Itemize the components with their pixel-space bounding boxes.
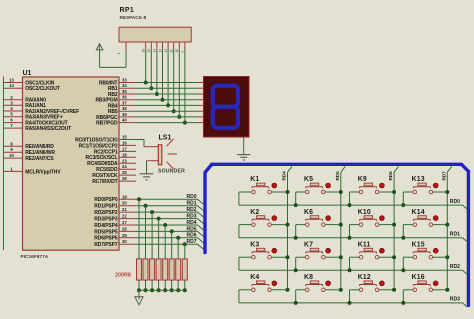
RP1 pin 2 (145, 42, 147, 49)
resistor common rail (139, 289, 185, 291)
U1 right pin 17 RC2/CCP1 (119, 150, 136, 152)
wire K3 left to row (239, 256, 252, 258)
keypad row wire RD2 (239, 269, 463, 271)
wire RP1 pin3 to RB1 (150, 49, 152, 88)
svg-text:21: 21 (122, 207, 127, 212)
junction RD1 (144, 204, 148, 208)
wire K12 left to row (350, 289, 360, 291)
svg-text:K1: K1 (250, 176, 259, 183)
wire K11 right to column (379, 256, 394, 258)
wire RD2 to resistor (151, 212, 153, 259)
bus wire (blue) right vertical (467, 171, 470, 305)
svg-text:RD5/PSP5: RD5/PSP5 (94, 229, 118, 235)
resistor R3 (200R) (150, 259, 155, 280)
U1 right pin 22 RD3/PSP3 (119, 218, 136, 220)
U1 left pin 7 RA5/AN4/SS/C2OUT (4, 127, 23, 129)
wire K1 right to column (271, 191, 287, 193)
resistor R5 (200R) (163, 259, 168, 280)
svg-text:RESPACK-8: RESPACK-8 (120, 15, 147, 20)
wire K6 right to column (325, 224, 341, 226)
resistor R1 (200R) (137, 259, 142, 280)
U1 right pin 26 RC7/RX/DT (119, 180, 136, 182)
wire RD2 to bus (136, 211, 198, 213)
wire K7 left to row (296, 256, 306, 258)
svg-text:K2: K2 (250, 209, 259, 216)
wire K6 left to row (296, 224, 306, 226)
wire K16 right to column (433, 289, 448, 291)
U1 right pin 21 RD2/PSP2 (119, 211, 136, 213)
wire RD1 to bus (136, 205, 198, 207)
junction RD0 (137, 197, 141, 201)
wire RD3 to bus (136, 218, 198, 220)
wire RD7 to resistor (184, 244, 186, 259)
resistor R8 lead (184, 280, 186, 290)
wire RB3 to display (136, 99, 198, 101)
svg-text:28: 28 (122, 226, 127, 231)
wire K4 left to row (239, 289, 252, 291)
svg-text:39: 39 (122, 112, 127, 117)
svg-text:RD0/PSP0: RD0/PSP0 (94, 197, 118, 203)
U1 right pin 15 RC0/T1OSO/T1CKI (119, 139, 136, 141)
resistor R2 (200R) (143, 259, 148, 280)
junction RD4 (163, 223, 167, 227)
U1 right pin 20 RD1/PSP1 (119, 205, 136, 207)
wire K1 left to row (239, 191, 252, 193)
svg-text:MCLR/Vpp/THV: MCLR/Vpp/THV (25, 169, 61, 175)
wire K9 right to column (379, 191, 394, 193)
junction RD3 (157, 217, 161, 221)
svg-text:RC7/RX/DT: RC7/RX/DT (92, 179, 117, 185)
U1 right pin 36 RB3/PGM (119, 99, 136, 101)
svg-text:RD7: RD7 (441, 171, 446, 181)
svg-text:27: 27 (122, 220, 127, 225)
display ground wire (243, 137, 245, 154)
wire RP1 pin6 to RB4 (167, 49, 169, 105)
svg-text:25: 25 (122, 170, 127, 175)
U1 left pin 6 RA4/T0CKI/C1OUT (4, 122, 23, 124)
wire K5 left to row (296, 191, 306, 193)
svg-text:RD3: RD3 (450, 297, 460, 303)
svg-text:34: 34 (122, 83, 127, 88)
wire RB4 to display (136, 104, 198, 106)
U1 left pin 8 RE0/AN5/RD (4, 145, 23, 147)
U1 left pin 5 RA3/AN3/VREF+ (4, 116, 23, 118)
svg-text:24: 24 (122, 164, 127, 169)
wire RD1 to resistor (145, 206, 147, 259)
ground symbol (sounder) (140, 173, 154, 175)
svg-text:RD1: RD1 (187, 201, 197, 207)
keypad row wire RD3 (239, 302, 463, 304)
U1 right pin 28 RD5/PSP5 (119, 230, 136, 232)
svg-text:RD0: RD0 (450, 199, 460, 205)
svg-text:K8: K8 (304, 274, 313, 281)
svg-text:RD1/PSP1: RD1/PSP1 (94, 204, 118, 210)
svg-text:38: 38 (122, 106, 127, 111)
ground symbol (display) (237, 154, 250, 156)
svg-text:14: 14 (9, 83, 14, 88)
wire RC0 to sounder (136, 139, 144, 141)
U1 left pin 9 RE1/AN6/WR (4, 151, 23, 153)
wire K9 left to row (350, 191, 360, 193)
svg-text:LS1: LS1 (159, 135, 172, 142)
wire K3 right to column (271, 256, 287, 258)
wire K8 right to column (325, 289, 341, 291)
U1 right pin 16 RC1/T1OSI/CCP2 (119, 144, 136, 146)
wire RD5 to bus (136, 230, 198, 232)
wire RD4 to resistor (164, 225, 166, 259)
7-segment display body (204, 77, 250, 138)
wire RD3 to resistor (158, 219, 160, 259)
resistor pack RP1 body (119, 27, 191, 42)
resistor R4 (200R) (156, 259, 161, 280)
svg-text:15: 15 (122, 135, 127, 140)
wire RD0 to bus (136, 198, 198, 200)
sounder ray top (167, 139, 174, 146)
wire RP1 pin5 to RB3 (162, 49, 164, 100)
U1 right pin 38 RB5 (119, 110, 136, 112)
svg-text:16: 16 (122, 140, 127, 145)
U1 left pin 10 RE2/AN7/CS (4, 157, 23, 159)
svg-text:RD2: RD2 (450, 264, 460, 270)
svg-text:RD0: RD0 (187, 194, 197, 200)
resistor R7 (200R) (176, 259, 181, 280)
resistor R6 (200R) (169, 259, 174, 280)
svg-text:10: 10 (175, 49, 179, 53)
svg-text:OSC2/CLKOUT: OSC2/CLKOUT (25, 86, 60, 92)
junction RD5 (170, 229, 174, 233)
svg-text:36: 36 (122, 95, 127, 100)
bus wire (blue) top horizontal (212, 164, 469, 171)
wire RP1 pin9 to RB7 (184, 49, 186, 123)
svg-text:200R8: 200R8 (115, 272, 131, 278)
svg-text:22: 22 (122, 214, 127, 219)
wire K7 right to column (325, 256, 341, 258)
svg-text:RB7/PGD: RB7/PGD (96, 121, 118, 127)
svg-text:RD6: RD6 (187, 233, 197, 239)
svg-text:16: 16 (142, 49, 146, 53)
resistor R1 lead (138, 280, 140, 290)
RP1 pin 4 (156, 42, 158, 49)
wire RD6 to resistor (177, 238, 179, 259)
svg-text:RD1: RD1 (450, 232, 460, 238)
svg-text:11: 11 (170, 49, 174, 53)
U1 right pin 39 RB6/PGC (119, 116, 136, 118)
wire RP1 pin8 to RB6 (178, 49, 180, 117)
svg-text:RD3: RD3 (187, 214, 197, 220)
svg-text:RD5: RD5 (187, 226, 197, 232)
wire RD6 to bus (136, 237, 198, 239)
junction RD7 (183, 242, 187, 246)
wire RB1 to display (136, 87, 198, 89)
wire K11 left to row (350, 256, 360, 258)
svg-text:33: 33 (122, 78, 127, 83)
wire RD4 to bus (136, 224, 198, 226)
svg-text:K9: K9 (358, 176, 367, 183)
U1 left pin 13 OSC1/CLKIN (4, 82, 23, 84)
RP1 pin 8 (178, 42, 180, 49)
svg-text:RA5/AN4/SS/C2OUT: RA5/AN4/SS/C2OUT (25, 126, 71, 132)
wire K14 left to row (403, 224, 413, 226)
wire RP1 pin7 to RB5 (173, 49, 175, 111)
U1 right pin 40 RB7/PGD (119, 122, 136, 124)
U1 right pin 33 RB0/INT (119, 82, 136, 84)
ground arrow terminal (138, 290, 140, 296)
U1 right pin 30 RD7/PSP7 (119, 243, 136, 245)
wire K15 left to row (403, 256, 413, 258)
wire K2 left to row (239, 224, 252, 226)
wire K4 right to column (271, 289, 287, 291)
RP1 pin 9 (184, 42, 186, 49)
svg-text:9: 9 (181, 51, 185, 53)
keypad row wire RD1 (239, 237, 463, 239)
mcu U1 body (23, 77, 120, 250)
wire RP1 pin4 to RB2 (156, 49, 158, 94)
power terminal VCC arrow (96, 44, 103, 50)
resistor R4 lead (158, 280, 160, 290)
svg-text:K5: K5 (304, 176, 313, 183)
wire K16 left to row (403, 289, 413, 291)
U1 right pin 24 RC5/SDO (119, 168, 136, 170)
junction RD6 (176, 236, 180, 240)
wire RD0 to resistor (138, 199, 140, 259)
svg-text:RD2/PSP2: RD2/PSP2 (94, 210, 118, 216)
svg-text:RD4/PSP4: RD4/PSP4 (94, 223, 118, 229)
wire VCC to RP1 pin1 (100, 66, 126, 68)
svg-text:14: 14 (153, 49, 157, 53)
svg-text:RD4: RD4 (282, 171, 287, 181)
svg-text:13: 13 (9, 78, 14, 83)
svg-text:K16: K16 (412, 274, 425, 281)
U1 left pin 2 RA0/AN0 (4, 99, 23, 101)
RP1 pin 6 (167, 42, 169, 49)
keypad column wire RD6 (393, 172, 395, 290)
svg-text:10: 10 (9, 153, 14, 158)
svg-text:20: 20 (122, 201, 127, 206)
wire RB0 to display (136, 82, 198, 84)
svg-text:K11: K11 (358, 241, 371, 248)
wire RB5 to display (136, 110, 198, 112)
svg-text:K13: K13 (412, 176, 425, 183)
wire RB6 to display (136, 116, 198, 118)
U1 right pin 27 RD4/PSP4 (119, 224, 136, 226)
RP1 pin 7 (173, 42, 175, 49)
svg-text:30: 30 (122, 239, 127, 244)
U1 right pin 25 RC6/TX/CK (119, 174, 136, 176)
svg-text:12: 12 (164, 49, 168, 53)
U1 left pin 1 MCLR/Vpp/THV (4, 170, 23, 172)
sounder body LS1 (158, 145, 162, 165)
svg-text:15: 15 (147, 49, 151, 53)
svg-text:RD2: RD2 (187, 207, 197, 213)
svg-text:RD4: RD4 (187, 220, 197, 226)
U1 right pin 23 RC4/SDI/SDA (119, 162, 136, 164)
svg-text:SOUNDER: SOUNDER (158, 169, 185, 175)
7-segment digit 8 (213, 86, 238, 128)
wire K14 right to column (433, 224, 448, 226)
resistor R5 lead (164, 280, 166, 290)
svg-text:RD6/PSP6: RD6/PSP6 (94, 236, 118, 242)
svg-text:PIC16F877A: PIC16F877A (21, 254, 49, 260)
wire K8 left to row (296, 289, 306, 291)
U1 left pin 4 RA2/AN2/VREF-/CVREF (4, 110, 23, 112)
svg-text:K15: K15 (412, 241, 425, 248)
wire K10 right to column (379, 224, 394, 226)
svg-text:17: 17 (122, 146, 127, 151)
svg-text:RD3/PSP3: RD3/PSP3 (94, 217, 118, 223)
resistor R7 lead (177, 280, 179, 290)
svg-text:18: 18 (122, 152, 127, 157)
svg-text:13: 13 (158, 49, 162, 53)
wire K10 left to row (350, 224, 360, 226)
wire RD7 to bus (136, 243, 198, 245)
svg-text:K6: K6 (304, 209, 313, 216)
svg-text:40: 40 (122, 118, 127, 123)
svg-text:26: 26 (122, 176, 127, 181)
svg-text:1: 1 (117, 52, 121, 54)
svg-text:29: 29 (122, 233, 127, 238)
U1 right pin 18 RC3/SCK/SCL (119, 156, 136, 158)
keypad column wire RD7 (446, 172, 448, 290)
left crop border line (3, 77, 5, 251)
svg-text:35: 35 (122, 89, 127, 94)
svg-text:U1: U1 (23, 70, 32, 77)
svg-text:RD7/PSP7: RD7/PSP7 (94, 242, 118, 248)
svg-text:K3: K3 (250, 241, 259, 248)
wire RB7 to display (136, 122, 198, 124)
wire K13 right to column (433, 191, 448, 193)
U1 right pin 19 RD0/PSP0 (119, 198, 136, 200)
wire K2 right to column (271, 224, 287, 226)
sounder ray mid (168, 153, 178, 155)
wire K5 right to column (325, 191, 341, 193)
svg-text:RD5: RD5 (335, 171, 340, 181)
svg-text:RE2/AN7/CS: RE2/AN7/CS (25, 156, 54, 162)
svg-text:RP1: RP1 (120, 7, 135, 14)
keypad column wire RD4 (287, 172, 289, 290)
U1 right pin 29 RD6/PSP6 (119, 237, 136, 239)
RP1 pin 3 (150, 42, 152, 49)
U1 left pin 14 OSC2/CLKOUT (4, 87, 23, 89)
RP1 pin 5 (162, 42, 164, 49)
svg-text:RD6: RD6 (388, 171, 393, 181)
resistor R3 lead (151, 280, 153, 290)
keypad column wire RD5 (340, 172, 342, 290)
wire RD5 to resistor (171, 231, 173, 259)
junction RD2 (150, 210, 154, 214)
svg-text:K10: K10 (358, 209, 371, 216)
wire K15 right to column (433, 256, 448, 258)
wire K13 left to row (403, 191, 413, 193)
svg-text:23: 23 (122, 158, 127, 163)
RP1 pin 1 common (125, 42, 127, 51)
wire K12 right to column (379, 289, 394, 291)
sounder bottom pin wire (147, 160, 159, 162)
resistor R2 lead (145, 280, 147, 290)
keypad row wire RD0 (239, 204, 463, 206)
resistor R8 (200R) (182, 259, 187, 280)
wire RP1 pin2 to RB0 (145, 49, 147, 83)
svg-text:K7: K7 (304, 241, 313, 248)
svg-text:K12: K12 (358, 274, 371, 281)
resistor R6 lead (171, 280, 173, 290)
svg-text:K4: K4 (250, 274, 259, 281)
U1 right pin 35 RB2 (119, 93, 136, 95)
svg-text:19: 19 (122, 194, 127, 199)
sounder ray bottom (167, 162, 174, 169)
U1 right pin 34 RB1 (119, 87, 136, 89)
U1 right pin 37 RB4 (119, 104, 136, 106)
svg-text:K14: K14 (412, 209, 425, 216)
bus wire (blue) left vertical (205, 164, 212, 252)
svg-text:RD7: RD7 (187, 239, 197, 245)
U1 left pin 3 RA1/AN1 (4, 104, 23, 106)
wire RB2 to display (136, 93, 198, 95)
svg-text:37: 37 (122, 100, 127, 105)
